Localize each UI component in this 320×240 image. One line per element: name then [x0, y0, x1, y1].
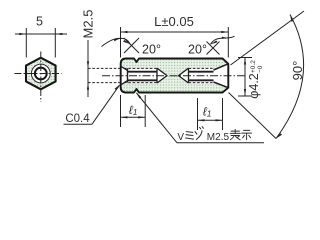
left 20 construction X line 1: [124, 38, 139, 53]
left hole entry relief line: [127, 68, 129, 82]
svg-text:+0.2: +0.2: [250, 60, 257, 73]
right countersink line bottom: [214, 82, 229, 88]
dimension 5 arrow right: [55, 33, 62, 35]
svg-text:V: V: [177, 132, 184, 143]
left hole cone: [157, 68, 167, 83]
hexagon hole circle: [35, 68, 47, 80]
right countersink line top: [214, 64, 229, 70]
C0.4 leader: [92, 85, 120, 124]
left thread dashed top: [124, 67, 157, 69]
svg-text:ℓ1: ℓ1: [203, 105, 212, 119]
left thread dashed bottom: [124, 82, 157, 84]
dimension 5 extension line right: [54, 28, 56, 58]
phi 4.2 arrow up: [244, 58, 246, 65]
thread projection dashed line bottom: [88, 82, 121, 84]
left 20 arc arrowhead at X line: [123, 40, 130, 44]
left hole entry chamfer top: [121, 66, 128, 70]
V groove note glyph mi: [186, 132, 194, 140]
right 20 construction X line 1: [207, 42, 220, 55]
hexagon horizontal centerline: [15, 73, 62, 75]
right thread dashed top: [189, 67, 214, 69]
left 20 construction X line 2: [124, 38, 139, 53]
right l1 arrow left: [198, 119, 205, 121]
svg-text:ℓ1: ℓ1: [129, 103, 138, 117]
side view centerline: [102, 75, 246, 77]
side view white hole cutout right: [179, 68, 214, 83]
countersink construction line lower: [229, 93, 277, 139]
left 20 arc: [102, 38, 131, 46]
right hole wall top: [189, 71, 214, 73]
left l1 arrow right: [138, 116, 145, 118]
M2.5 arrow down: [87, 61, 89, 68]
svg-text:20°: 20°: [142, 42, 161, 56]
right hole wall bottom: [189, 79, 214, 81]
dimension 5 line: [15, 33, 67, 35]
V groove note glyph ji: [242, 130, 252, 139]
hexagon thread major circle: [31, 64, 50, 83]
dimension 5 extension line left: [25, 28, 27, 58]
svg-text:M2.5: M2.5: [207, 132, 230, 143]
phi 4.2 extension tick top: [238, 57, 252, 59]
right 20 construction X line 2: [207, 42, 220, 55]
dimension 5 arrow left: [19, 33, 26, 35]
V groove note leader: [137, 93, 265, 143]
V groove note glyph hyou: [230, 129, 240, 139]
left hole wall top: [127, 71, 157, 73]
90 arc arrowhead lower: [276, 133, 282, 138]
phi 4.2 text: [247, 60, 264, 99]
hexagon end view body: [26, 58, 56, 90]
M2.5 arrow up: [87, 83, 89, 90]
M2.5 dimension line: [87, 40, 89, 97]
left l1 extension line right: [144, 95, 146, 127]
right l1 dimension line: [198, 119, 223, 121]
phi 4.2 dimension line: [244, 58, 246, 97]
svg-text:L±0.05: L±0.05: [154, 14, 194, 29]
C0.4 underline: [64, 123, 93, 125]
right thread dashed bottom: [189, 82, 214, 84]
L dimension line: [121, 31, 229, 33]
left l1 arrow left: [121, 116, 128, 118]
side view body fill: [121, 59, 229, 93]
svg-text:C0.4: C0.4: [65, 113, 90, 125]
left hole end wall: [156, 68, 158, 83]
left hole wall bottom: [127, 79, 157, 81]
90 arc arrowhead upper: [290, 15, 293, 22]
90 degree arc: [276, 15, 304, 139]
svg-text:20°: 20°: [188, 42, 207, 56]
right 20 arc arrowhead at extension line: [222, 37, 229, 39]
countersink construction line upper: [231, 11, 305, 65]
svg-text:φ4.2: φ4.2: [247, 73, 261, 99]
V groove note leader arrowhead: [136, 92, 141, 98]
phi 4.2 arrow down: [244, 89, 246, 96]
right 20 arc: [211, 36, 235, 44]
right l1 extension line left: [197, 98, 199, 130]
phi 4.2 extension tick bottom: [238, 95, 252, 97]
V groove note glyph zo: [195, 127, 203, 140]
right hole cone: [179, 68, 189, 83]
right hole end wall: [188, 68, 190, 83]
L dimension arrow right: [221, 31, 228, 33]
side view outline: [121, 59, 229, 93]
right 20 arc arrowhead at X line: [211, 41, 218, 45]
hexagon vertical centerline: [40, 52, 42, 103]
svg-text:5: 5: [36, 15, 43, 29]
svg-text:M2.5: M2.5: [81, 10, 96, 39]
side view white hole cutout left: [121, 67, 167, 85]
L dimension extension line right: [227, 27, 229, 58]
left l1 extension line left: [120, 95, 122, 127]
svg-text:90°: 90°: [290, 61, 305, 81]
left hole entry chamfer bottom: [121, 81, 128, 85]
right l1 arrow right: [216, 119, 223, 121]
thread projection dashed line top: [88, 67, 121, 69]
C0.4 leader arrowhead: [115, 84, 121, 90]
left l1 dimension line: [121, 116, 146, 118]
L dimension arrow left: [121, 31, 128, 33]
L dimension extension line left: [120, 27, 122, 58]
side view white countersink cutout: [214, 64, 229, 88]
left 20 arc arrowhead at extension line: [114, 38, 121, 41]
right l1 extension line right: [222, 98, 224, 130]
svg-text:−0: −0: [257, 65, 264, 73]
